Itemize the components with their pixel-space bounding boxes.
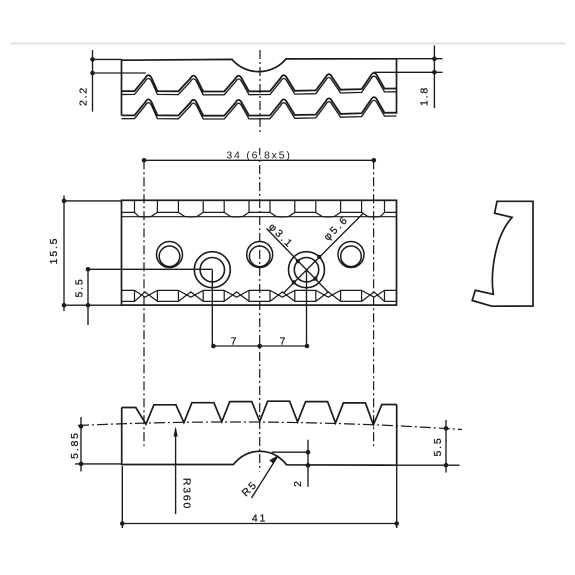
hole small 3 xyxy=(338,242,364,268)
dim 1.8 lines xyxy=(374,46,443,109)
leader phi5.6 xyxy=(284,213,364,293)
top view lower serration offset line xyxy=(122,100,397,119)
hole large 1 xyxy=(194,252,230,288)
R360 leader xyxy=(175,429,177,514)
svg-text:5.5: 5.5 xyxy=(74,278,86,298)
top view center line xyxy=(259,50,261,134)
plan top band bottom line xyxy=(122,216,397,218)
side profile outline xyxy=(472,201,533,306)
svg-text:1.8: 1.8 xyxy=(419,86,431,106)
dim 7-7 line xyxy=(213,345,307,347)
plan bottom band V grooves xyxy=(135,290,385,297)
leader square markers xyxy=(296,259,300,263)
dim 34 line xyxy=(144,159,374,161)
plan top band scallops xyxy=(135,212,385,217)
R5 leader xyxy=(252,457,278,499)
plan bottom band lower segments xyxy=(122,300,397,302)
bottom view body xyxy=(122,405,397,466)
svg-text:7: 7 xyxy=(231,336,239,348)
top view outline with center notch xyxy=(122,59,397,116)
hole small 1 xyxy=(157,242,183,268)
main center line xyxy=(259,148,261,472)
dim 5.5 right lines xyxy=(397,420,460,473)
svg-text:15.5: 15.5 xyxy=(48,237,60,265)
dim 2 lines xyxy=(272,440,309,487)
dim 41 lines xyxy=(122,465,396,528)
R360 string radius arc xyxy=(78,422,462,430)
top view upper serration row xyxy=(122,73,397,92)
plan bottom band ticks xyxy=(135,290,385,301)
plan top band flat lines xyxy=(122,211,397,213)
plan top band ticks xyxy=(135,201,385,213)
svg-text:R360: R360 xyxy=(181,478,193,510)
leader phi3.1 xyxy=(267,229,329,293)
dimension end dots xyxy=(90,57,95,62)
plan outline rect xyxy=(122,200,397,305)
svg-text:2.2: 2.2 xyxy=(78,86,90,106)
svg-text:5.85: 5.85 xyxy=(69,431,81,459)
bottom view teeth outline xyxy=(122,401,397,425)
dim 5.85 lines xyxy=(75,417,122,472)
top view upper serration offset line xyxy=(122,76,397,95)
hole extension lines xyxy=(212,270,306,346)
svg-text:7: 7 xyxy=(280,336,288,348)
hole small center xyxy=(247,242,273,268)
svg-text:2: 2 xyxy=(292,479,304,487)
dim 2.2 lines xyxy=(93,50,147,112)
plan bottom band upper segments xyxy=(122,289,397,291)
string line left xyxy=(143,160,145,446)
R5 arrowhead xyxy=(269,455,278,463)
dim 5.5 lines xyxy=(88,269,212,325)
svg-text:41: 41 xyxy=(252,513,267,525)
hole large 2 xyxy=(289,252,325,288)
svg-text:5.5: 5.5 xyxy=(432,437,444,457)
string line right xyxy=(373,160,375,446)
R360 arrowhead xyxy=(174,427,178,437)
top view lower serration row xyxy=(122,97,397,116)
dim 15.5 lines xyxy=(64,196,122,312)
plan bottom band ridge peaks xyxy=(135,292,385,302)
gray page divider xyxy=(10,42,566,44)
